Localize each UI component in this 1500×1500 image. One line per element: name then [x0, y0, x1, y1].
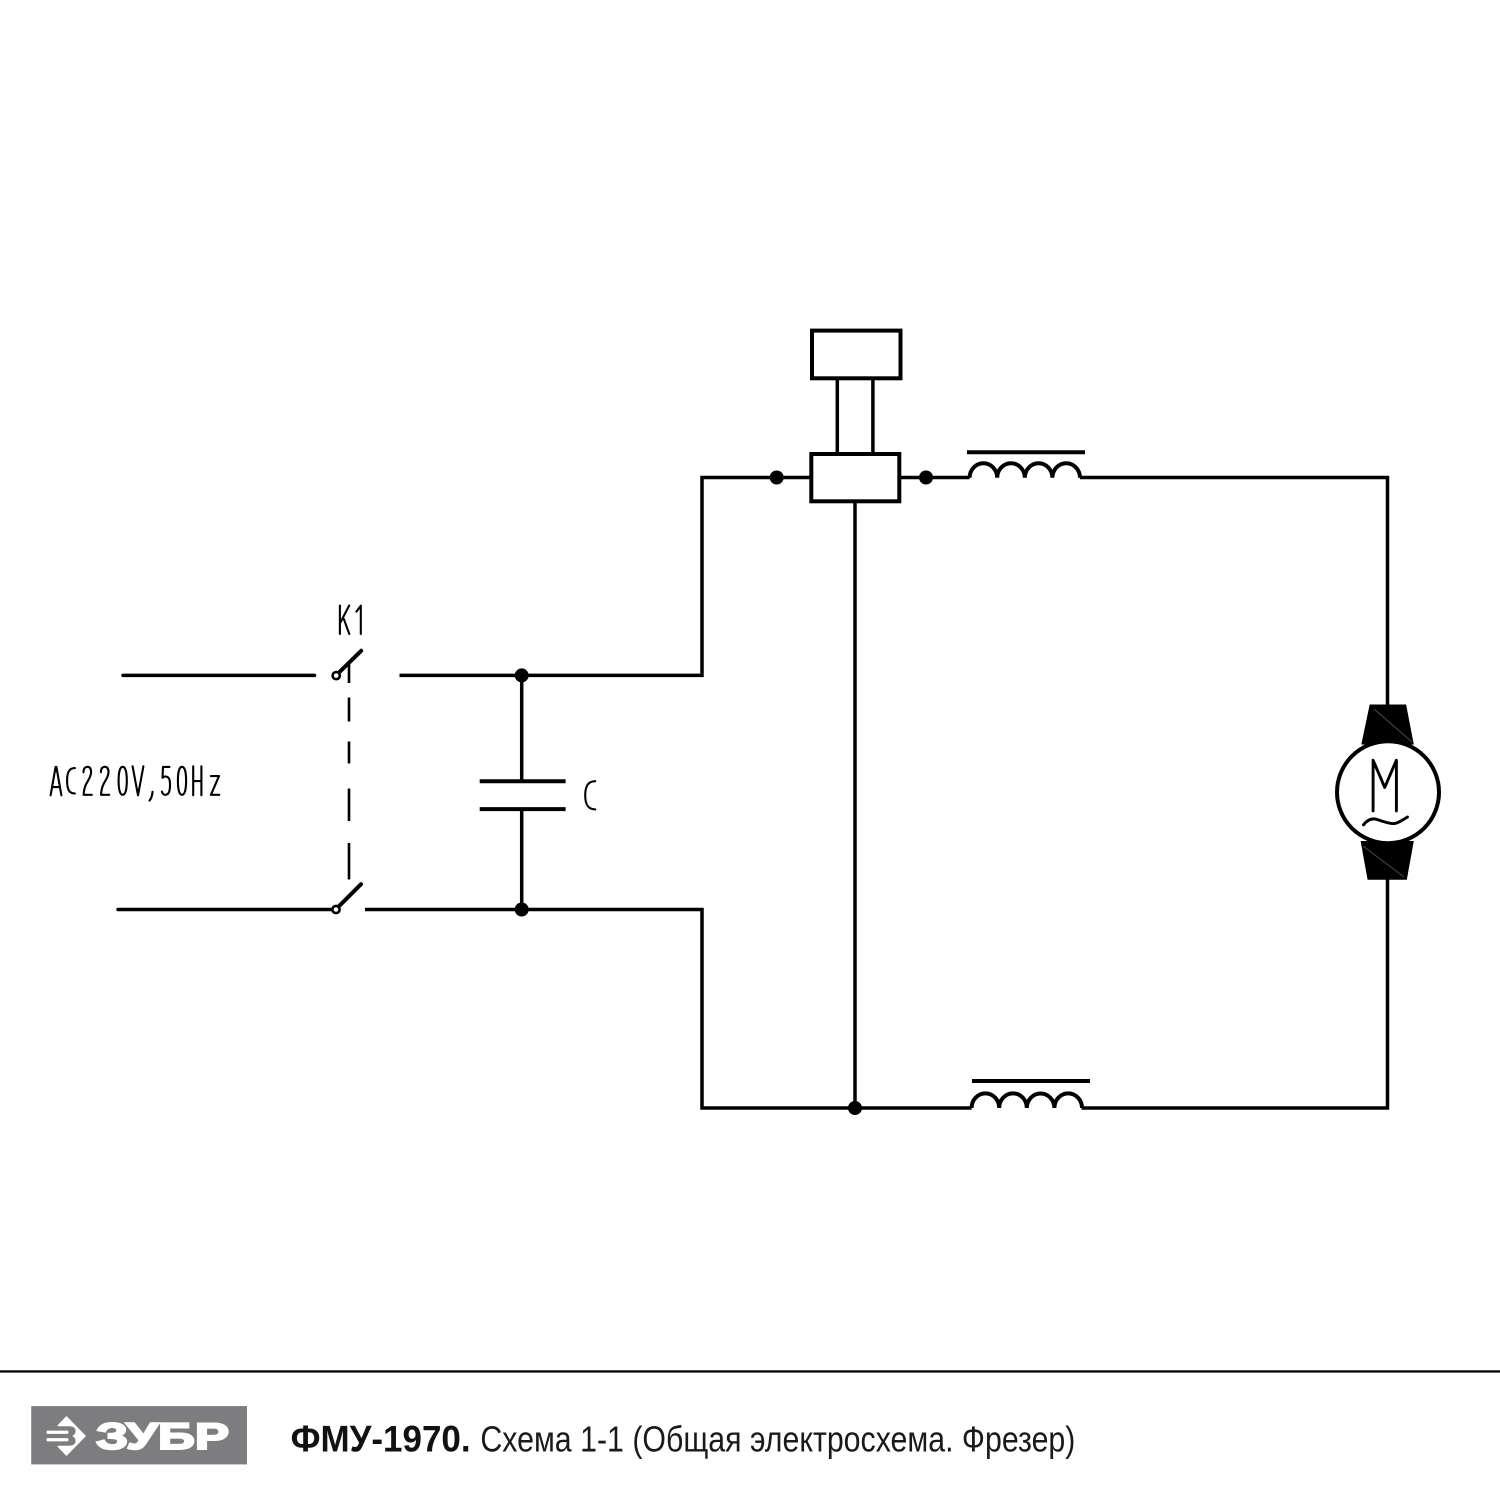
wire: regulator tap down to bottom row [853, 501, 857, 1108]
switch K1 pole 2 contact circle [332, 906, 339, 913]
inductor L1 winding [970, 463, 1080, 478]
switch K1 pole 1 contact circle [333, 672, 340, 679]
junction node: capacitor top [515, 668, 529, 682]
motor M1 body circle [1337, 741, 1439, 843]
junction node: top row right of regulator [919, 471, 933, 485]
junction node: capacitor bottom [515, 903, 529, 917]
inductor L2 winding [972, 1093, 1082, 1108]
ZUBR logo bison diamond icon [47, 1416, 87, 1456]
label AC220V,50Hz [51, 766, 220, 800]
svg-text:ЗУБР: ЗУБР [96, 1416, 229, 1457]
wire: inductor L2 to motor bottom [1082, 878, 1388, 1108]
wire: regulator to inductor L1 [899, 476, 969, 480]
capacitor C bottom lead [520, 811, 524, 910]
switch K1 pole 2 lever [339, 884, 361, 906]
motor M1 top brush [1361, 705, 1414, 745]
motor M1 AC tilde [1364, 817, 1408, 825]
regulator (speed controller) top box [812, 331, 901, 379]
capacitor C plates [480, 781, 566, 809]
motor M1 letter M [1373, 760, 1396, 811]
capacitor C top lead [520, 675, 524, 779]
label C (capacitor) [585, 781, 595, 809]
svg-text:Схема 1-1 (Общая электросхема.: Схема 1-1 (Общая электросхема. Фрезер) [480, 1418, 1075, 1459]
footer separator rule [0, 1370, 1500, 1372]
junction node: regulator tap on bottom row [848, 1101, 862, 1115]
switch K1 mechanical link (dashed) [348, 663, 351, 880]
wire: bottom row from switch to corner and to inductor L2 [365, 910, 972, 1109]
inductor L1 core bar [967, 450, 1085, 454]
wire: top row from switch to corner and to regulator [400, 478, 812, 676]
svg-text:ФМУ-1970.: ФМУ-1970. [291, 1418, 471, 1459]
switch K1 pole 1 lever [339, 651, 361, 673]
wire: AC source top lead [123, 674, 315, 678]
regulator bottom box [811, 454, 899, 501]
junction node: top row left of regulator [770, 471, 784, 485]
regulator stem lines [837, 378, 873, 454]
wire: inductor L1 to motor top [1080, 478, 1388, 707]
wire: AC source bottom lead [118, 908, 331, 912]
ZUBR logo plate [31, 1406, 247, 1464]
label K1 [340, 606, 361, 635]
motor M1 bottom brush [1361, 841, 1414, 880]
inductor L2 core bar [972, 1079, 1090, 1083]
